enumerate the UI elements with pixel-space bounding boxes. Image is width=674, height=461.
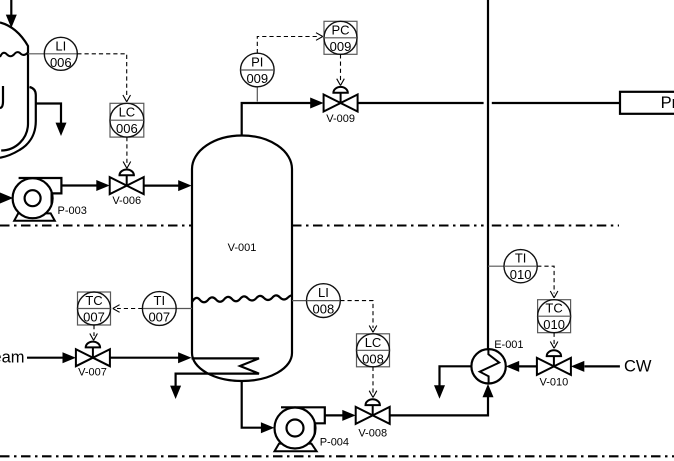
instrument LC/006 (shared display) [110, 103, 144, 137]
battery limit dash-dot line lower [0, 455, 674, 457]
pump P-004 [275, 407, 325, 451]
pipe: P-004 to V-008 [325, 410, 356, 421]
instrument bubble PI/009 [240, 53, 274, 101]
svg-text:TC: TC [545, 301, 562, 316]
pipe: steam inlet to V-007 [27, 352, 76, 363]
svg-text:V-010: V-010 [540, 377, 569, 389]
product flag box [620, 92, 674, 114]
signal: LI/006 to LC/006 [77, 54, 126, 98]
pipe: V-001 bottoms to P-004 [242, 381, 275, 433]
instrument PC/009 (shared display) [324, 21, 357, 54]
svg-text:009: 009 [246, 71, 268, 86]
instrument bubble LI/008 [292, 284, 340, 318]
svg-text:Steam: Steam [0, 349, 25, 367]
svg-text:007: 007 [83, 310, 105, 325]
signal: TC/010 to V-010 actuator [553, 333, 555, 344]
svg-text:V-008: V-008 [358, 428, 387, 440]
svg-text:E-001: E-001 [494, 339, 523, 351]
svg-text:009: 009 [330, 39, 352, 54]
pump P-003 [13, 178, 62, 221]
svg-text:010: 010 [510, 267, 532, 282]
instrument bubble LI/006 [28, 37, 77, 70]
vessel R-00x (jacketed reactor, partial at left edge) [0, 23, 36, 158]
svg-text:LC: LC [119, 105, 136, 120]
svg-text:LI: LI [55, 38, 66, 53]
signal: PI/009 to PC/009 [257, 37, 319, 54]
svg-text:008: 008 [362, 351, 384, 366]
instrument bubble TI/007 [142, 292, 192, 326]
svg-text:LI: LI [318, 285, 329, 300]
svg-text:CW: CW [624, 358, 652, 376]
vessel V-001 [192, 136, 292, 381]
svg-text:TI: TI [154, 293, 166, 308]
svg-text:V-001: V-001 [228, 242, 257, 254]
svg-text:P-004: P-004 [320, 436, 349, 448]
pipe: V-008 to E-001 [390, 384, 494, 416]
svg-text:TI: TI [515, 251, 527, 266]
pipe: V-009 to product (gap at utility line crossing) [358, 102, 620, 104]
control valve V-007 [76, 342, 110, 367]
steam sparger pennant inside V-001 with drain arrow [170, 358, 259, 399]
svg-text:PI: PI [251, 55, 263, 70]
svg-text:V-007: V-007 [78, 367, 107, 379]
pipe: E-001 outlet left with down arrow [434, 366, 471, 398]
svg-text:PC: PC [331, 22, 349, 37]
pipe: V-006 to vessel V-001 [144, 180, 192, 191]
feed inlet arrow into reactor top [6, 0, 17, 28]
svg-text:006: 006 [116, 121, 138, 136]
pipe: V-010 to E-001 [506, 361, 537, 372]
signal: TI/010 to TC/010 [537, 266, 554, 293]
utility vertical line to E-001 [487, 0, 489, 350]
heat exchanger E-001 [471, 349, 505, 383]
control valve V-008 [356, 399, 390, 424]
signal: LC/008 to V-008 actuator [372, 367, 374, 393]
instrument TC/010 (shared display) [538, 300, 571, 333]
control valve V-009 [324, 87, 358, 112]
svg-text:006: 006 [50, 55, 72, 70]
signal: TC/007 to V-007 actuator [93, 325, 95, 336]
pipe: reactor bottom to pump P-003 [0, 193, 13, 204]
control valve V-010 [537, 350, 571, 375]
instrument bubble TI/010 [488, 250, 537, 283]
instrument TC/007 (shared display) [78, 292, 111, 325]
signal: LC/006 to V-006 actuator [126, 137, 128, 164]
signal: PC/009 to V-009 actuator [340, 54, 342, 81]
svg-text:Product: Product [661, 94, 674, 112]
svg-text:008: 008 [313, 302, 335, 317]
pipe: CW inlet to V-010 [571, 361, 620, 372]
svg-text:010: 010 [543, 317, 565, 332]
svg-text:LC: LC [365, 335, 382, 350]
signal: TI/007 to TC/007 [117, 308, 142, 310]
pipe: V-001 overhead riser to V-009 [242, 98, 324, 137]
svg-text:007: 007 [148, 310, 170, 325]
battery limit dash-dot line upper [0, 224, 619, 226]
pipe: P-003 to valve V-006 [61, 180, 109, 191]
signal: LI/008 to LC/008 [340, 301, 373, 328]
svg-text:P-003: P-003 [58, 205, 87, 217]
svg-text:V-009: V-009 [326, 113, 355, 125]
control valve V-006 [110, 170, 144, 195]
svg-text:V-006: V-006 [112, 195, 141, 207]
instrument LC/008 (shared display) [357, 334, 390, 367]
pipe: V-007 to V-001 [110, 352, 192, 363]
svg-text:TC: TC [85, 293, 102, 308]
reactor vent line with down arrow [36, 104, 67, 137]
